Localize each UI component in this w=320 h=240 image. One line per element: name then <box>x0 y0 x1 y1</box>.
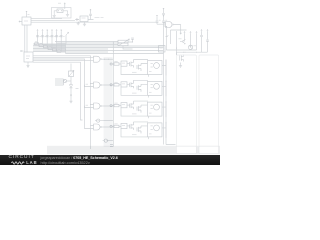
source symbol V2 <box>95 119 113 122</box>
net stub D <box>190 32 191 46</box>
capacitor C14 <box>206 30 209 53</box>
logic gate U6D <box>94 124 114 130</box>
ground G3 <box>77 22 80 25</box>
url line <box>41 160 90 165</box>
wire U1 down pair <box>25 25 27 53</box>
wire rail bus <box>42 42 164 54</box>
net tick <box>76 88 79 90</box>
capacitor C11 <box>162 15 167 27</box>
wire ladder junction <box>64 44 67 54</box>
logic gate U6A <box>94 56 114 62</box>
capacitor C12 <box>162 8 165 17</box>
gate driver module U9 <box>110 101 166 118</box>
title line <box>41 156 118 160</box>
net stub C <box>184 32 185 42</box>
transistor Q1 <box>179 39 186 45</box>
diode D2 <box>69 83 72 91</box>
junction cluster <box>176 48 184 53</box>
regulator subcircuit box X1 <box>52 8 72 19</box>
gate driver module U7 <box>110 60 166 77</box>
wire gate C taps <box>84 104 93 108</box>
vertical scrollbar band <box>104 57 113 147</box>
wire bus line5 <box>33 62 83 120</box>
bus ladder wires right <box>39 44 65 52</box>
current arrow I1 <box>70 92 72 97</box>
net label VCC2 <box>95 17 104 19</box>
panel card 1 <box>176 55 196 153</box>
ground G5 <box>69 96 72 103</box>
wire RV1 leads <box>118 40 133 50</box>
ground G1 <box>53 14 56 17</box>
gate driver module U8 <box>110 80 166 97</box>
potentiometer R7 <box>69 70 75 76</box>
logic gate U11 <box>166 22 181 31</box>
wire nand input <box>157 23 166 26</box>
potentiometer RV1 <box>118 39 129 46</box>
IC U1 oscillator block <box>22 11 31 25</box>
resistor ladder R1-R6 <box>35 42 62 53</box>
capacitor C1 <box>89 9 92 17</box>
bus ladder wires left <box>33 44 61 52</box>
small box on rail <box>159 46 166 53</box>
source symbol V3 <box>103 139 114 142</box>
wire chain feed <box>70 64 73 72</box>
wire cluster bottom <box>166 50 207 55</box>
wire block rail right <box>166 60 176 145</box>
net flag A <box>66 32 69 44</box>
ground G2 <box>66 13 69 16</box>
capacitor C8 <box>131 38 134 43</box>
wire X1 internal <box>54 11 67 14</box>
regulator U3 <box>57 9 63 13</box>
footer watermark bar <box>0 155 220 165</box>
junction cluster B <box>84 84 88 85</box>
wire bus line3 <box>33 59 94 129</box>
bottom toolbar band <box>47 146 220 154</box>
wire chain mid <box>69 77 71 84</box>
toolbar button 1 <box>176 146 196 153</box>
toolbar button 2 <box>199 146 219 153</box>
wire bus line2 <box>33 57 94 59</box>
capacitor bank C2-C7 net stubs <box>36 30 65 52</box>
diode D1 <box>75 19 79 21</box>
wire U1 to bus rows <box>31 19 157 23</box>
regulator U4 <box>80 16 88 22</box>
wire VCC stub <box>58 3 66 9</box>
wire left chain <box>55 79 69 85</box>
transistor Q2 <box>188 45 196 50</box>
ground G4 <box>83 23 86 26</box>
wire gate B taps <box>84 83 93 87</box>
net stub E <box>196 32 197 51</box>
wire main rail <box>163 27 165 145</box>
current arrow I2 <box>180 31 182 35</box>
capacitor C10 <box>156 15 161 24</box>
CircuitLab logo <box>9 155 35 160</box>
wire block feeder <box>112 42 115 147</box>
net flag B <box>166 26 169 37</box>
mosfet Q3 <box>180 55 184 62</box>
gate driver module U10 <box>110 122 166 139</box>
ground G6 <box>179 63 182 68</box>
wire bus line4 <box>33 60 94 62</box>
IC U2 driver block <box>24 52 33 62</box>
wire bus line1 <box>33 56 94 126</box>
wire B out <box>88 17 94 20</box>
wire cluster frame <box>166 28 196 55</box>
logic gate U6C <box>94 103 114 109</box>
node flag at U2 left <box>21 50 24 52</box>
capacitor C13 <box>200 30 203 53</box>
wire gate D down <box>90 126 92 150</box>
source symbol V1 <box>63 79 66 82</box>
junction cluster C <box>84 105 88 106</box>
ground below U2 <box>26 62 29 68</box>
node VIN flag at U1 left <box>19 21 22 23</box>
panel card 2 <box>199 55 219 153</box>
wire blocks bottom <box>110 145 113 147</box>
logic gate U6B <box>94 82 114 88</box>
